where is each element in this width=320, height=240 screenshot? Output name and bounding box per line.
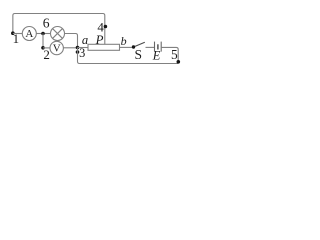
svg-text:1: 1 (13, 31, 20, 46)
wire node1 to ammeter (13, 33, 22, 35)
svg-text:P: P (95, 33, 104, 47)
wire junction to rheostat terminal a (78, 47, 89, 49)
svg-text:a: a (82, 33, 88, 47)
ammeter A (22, 27, 36, 41)
wire junction down, corner, bottom run to node 5 (78, 48, 179, 64)
rheostat slider wire (104, 27, 106, 45)
node 3 dot (76, 50, 80, 54)
node 1 dot (11, 31, 15, 35)
junction dot (76, 46, 80, 50)
svg-text:E: E (152, 49, 161, 63)
wire battery right, corner down to node 5 (161, 47, 178, 62)
node 5 dot (177, 60, 181, 64)
svg-text:6: 6 (43, 15, 50, 30)
wire ammeter to lamp (36, 33, 50, 35)
switch pivot dot (132, 45, 135, 48)
wire rheostat b to switch (120, 46, 134, 48)
node 4 dot (104, 25, 108, 29)
battery long plate right (160, 42, 162, 52)
wire switch to battery (146, 46, 155, 48)
svg-text:5: 5 (171, 47, 178, 62)
wire voltmeter branch vertical (42, 34, 44, 48)
svg-text:V: V (53, 43, 61, 55)
battery long plate left (154, 42, 156, 52)
node 6 dot (41, 32, 45, 36)
svg-text:2: 2 (43, 47, 50, 62)
svg-text:S: S (134, 47, 142, 62)
wire top loop from slider P up, across, down left side (13, 14, 105, 34)
svg-text:3: 3 (79, 46, 85, 60)
lamp X (51, 27, 65, 41)
voltmeter V (50, 41, 63, 54)
switch blade (135, 42, 145, 46)
rheostat body (88, 44, 120, 50)
wire voltmeter to junction (63, 47, 77, 49)
svg-text:A: A (25, 28, 33, 40)
wire lamp right, corner down to junction (65, 34, 78, 48)
wire node2 to voltmeter (43, 47, 50, 49)
svg-text:b: b (121, 34, 127, 48)
battery short thick plate (157, 44, 159, 49)
node 2 dot (41, 46, 45, 50)
